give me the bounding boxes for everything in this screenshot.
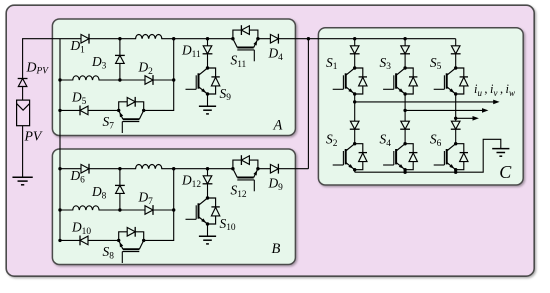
junction DC bus leg S1: [353, 37, 356, 40]
junction riser middle: [172, 78, 175, 81]
wire lower rail: [60, 109, 119, 111]
junction phase tap S5: [454, 117, 457, 120]
junction phase tap S3: [403, 109, 406, 112]
wire DPV anode to PV panel: [22, 87, 24, 100]
inductor boost-D1: [136, 35, 162, 41]
inductor boost-D6: [136, 165, 162, 171]
wire leg S1 upper: [354, 39, 356, 68]
junction riser middle: [172, 208, 175, 211]
wire B output riser: [307, 39, 309, 169]
junction left-rail lower: [58, 239, 61, 242]
ground S10: [199, 236, 216, 244]
junction D11 top: [206, 37, 209, 40]
diode D8: [115, 185, 125, 193]
diode series S4: [400, 121, 410, 129]
wire PV positive to top rail: [23, 39, 60, 78]
ground PV: [12, 177, 32, 185]
diode series S3: [400, 46, 410, 54]
diode D12: [203, 176, 213, 184]
ground inverter: [492, 149, 509, 157]
ground S9: [199, 106, 216, 114]
wire leg S2 to bottom rail: [354, 170, 356, 173]
IGBT S11: [231, 25, 259, 61]
wire D3 branch: [119, 39, 121, 80]
IGBT S2: [333, 142, 367, 171]
inductor input-D2: [73, 76, 99, 82]
junction left-rail middle: [58, 208, 61, 211]
wire leg S4 to bottom rail: [404, 170, 406, 173]
wire D8 branch: [119, 169, 121, 210]
junction D3 bottom: [118, 78, 121, 81]
junction bottom rail leg S6: [454, 171, 457, 174]
wire leg S5 to phase tap: [455, 94, 457, 144]
diode series S2: [350, 121, 360, 129]
wire S9 emitter to ground: [207, 94, 209, 106]
diode series S6: [451, 121, 461, 129]
junction D3 top: [118, 37, 121, 40]
junction bottom rail leg S4: [403, 171, 406, 174]
wire middle rail: [60, 209, 174, 211]
junction left-rail top: [58, 167, 61, 170]
wire collector riser: [144, 169, 174, 241]
inverter block C: [318, 28, 523, 185]
IGBT S1: [333, 66, 367, 95]
IGBT S3: [383, 66, 417, 95]
diode D11: [203, 46, 213, 54]
IGBT S10: [186, 196, 220, 225]
diode D5: [80, 106, 88, 116]
wire PV negative to ground: [22, 126, 24, 177]
junction D8 bottom: [118, 208, 121, 211]
svg-text:A: A: [273, 117, 283, 133]
wire output rail: [258, 38, 309, 40]
junction riser top: [172, 37, 175, 40]
wire output rail: [258, 168, 309, 170]
wire leg S1 to phase tap: [354, 94, 356, 144]
diode D10: [80, 236, 88, 246]
IGBT S6: [434, 142, 468, 171]
diode D4: [270, 34, 278, 44]
wire top rail: [60, 168, 233, 170]
wire top rail: [60, 38, 233, 40]
diode D9: [270, 164, 278, 174]
diode series S5: [451, 46, 461, 54]
wire leg S5 upper: [455, 39, 457, 68]
IGBT S4: [383, 142, 417, 171]
wire leg S3 upper: [404, 39, 406, 68]
wire left rail: [59, 39, 61, 241]
wire D12 branch: [207, 169, 209, 198]
svg-text:B: B: [272, 241, 281, 257]
junction D8 top: [118, 167, 121, 170]
wire collector riser: [144, 39, 174, 111]
inductor input-D7: [73, 206, 99, 212]
wire lower rail: [60, 239, 119, 241]
junction D12 top: [206, 167, 209, 170]
IGBT S9: [186, 66, 220, 95]
phase output v: [405, 109, 482, 111]
junction DC bus leg S3: [403, 37, 406, 40]
junction DC bus: [307, 37, 310, 40]
IGBT S7: [117, 97, 145, 133]
converter block A: [52, 19, 295, 136]
wire DC bus into C: [308, 38, 455, 40]
IGBT S5: [434, 66, 468, 95]
diode series S1: [350, 46, 360, 54]
junction left-rail middle: [58, 78, 61, 81]
wire leg S3 to phase tap: [404, 94, 406, 144]
diode D3: [115, 55, 125, 63]
phase output u: [355, 101, 494, 103]
diode D1: [81, 34, 89, 44]
wire bottom rail: [355, 139, 501, 172]
diode D7: [145, 205, 153, 215]
diode D6: [81, 164, 89, 174]
phase output w: [456, 117, 473, 119]
junction left-rail lower: [58, 109, 61, 112]
wire leg S6 to bottom rail: [455, 170, 457, 173]
converter block B: [52, 149, 295, 265]
diode DPV: [18, 79, 28, 87]
PV panel: [17, 100, 30, 126]
svg-text:C: C: [499, 162, 512, 182]
diode D2: [145, 75, 153, 85]
IGBT S12: [231, 155, 259, 191]
junction riser top: [172, 167, 175, 170]
wire S10 emitter to ground: [207, 224, 209, 236]
IGBT S8: [117, 227, 145, 263]
svg-text:PV: PV: [24, 129, 43, 144]
junction phase tap S1: [353, 100, 356, 103]
wire middle rail: [60, 79, 174, 81]
wire D11 branch: [207, 39, 209, 68]
